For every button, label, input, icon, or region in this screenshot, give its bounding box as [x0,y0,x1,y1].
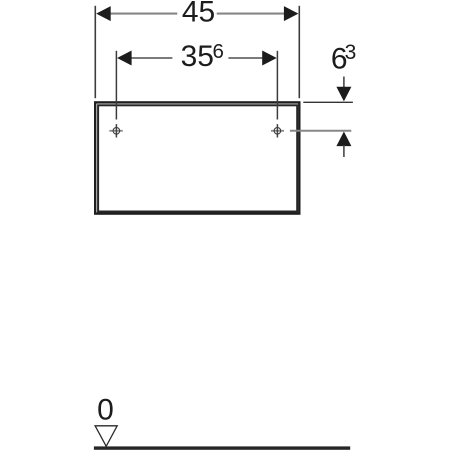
dimension 45: left arrowhead [96,6,111,21]
dimension 35_6: line right segment [228,57,263,59]
cabinet outline inner rect [98,105,297,211]
dimension 6_3: lower arrow shaft [343,145,345,157]
svg-text:0: 0 [97,393,114,426]
mounting hole crosshair left: horizontal arm [109,130,123,132]
dimension 6_3: upper reference line [303,101,353,103]
mounting hole crosshair right: horizontal arm [271,130,284,132]
dimension 45: right extension line [298,6,300,98]
dimension 35_6: line left segment [131,57,173,59]
dimension 35_6: right arrowhead [262,51,277,66]
cabinet outline outer rect [95,102,299,213]
dimension 35_6: right extension line [276,51,278,120]
floor line [94,446,350,449]
svg-text:45: 45 [182,0,215,29]
svg-text:3: 3 [345,41,357,64]
dimension 45: left extension line [94,6,96,98]
dimension 45: right arrowhead [284,6,299,21]
mounting hole crosshair left: circle [113,128,120,135]
floor datum triangle [95,426,117,447]
dimension 45: line left segment [110,13,178,15]
dimension 6_3: lower reference line [290,130,351,132]
dimension 6_3: upper arrow shaft [343,77,345,90]
svg-text:6: 6 [213,40,224,63]
mounting hole crosshair left: vertical arm [115,124,117,137]
dimension 35_6: left extension line [115,51,117,120]
mounting hole crosshair right: vertical arm [276,124,278,137]
dimension 6_3: upper arrowhead pointing down [336,87,351,102]
dimension 35_6: left arrowhead [117,51,132,66]
dimension 6_3: lower arrowhead pointing up [336,132,351,147]
svg-text:35: 35 [181,40,214,73]
mounting hole crosshair right: circle [274,128,281,135]
dimension 45: line right segment [217,13,285,15]
